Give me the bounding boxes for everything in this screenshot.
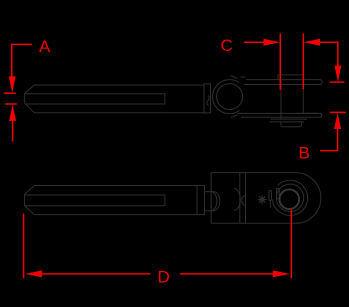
- top view jaw bottom plate: [237, 113, 322, 117]
- dim B upper tick: [330, 81, 345, 83]
- dim A lower arrowhead: [9, 104, 16, 121]
- top view washer under jaw: [270, 119, 307, 122]
- bottom view socket arc: [242, 195, 245, 205]
- dim D left extension line: [23, 214, 25, 279]
- svg-text:D: D: [158, 268, 170, 287]
- top view ball inner circle: [217, 84, 243, 110]
- dim C right line with elbow to B arrow: [320, 42, 338, 66]
- dim D line right segment: [180, 273, 274, 275]
- bottom view jaw slot lines: [240, 173, 246, 224]
- top view pin head top rectangle: [278, 75, 303, 80]
- dim A upper arrowhead: [9, 76, 16, 93]
- top view collar: [204, 84, 211, 113]
- bottom view tongue inner arc: [213, 192, 217, 210]
- dim B upper arrowhead: [334, 66, 341, 82]
- dim B lower arrowhead: [334, 113, 341, 129]
- bottom view tongue: [205, 192, 220, 211]
- dim D right extension line: [290, 209, 292, 278]
- dim B lower tick: [330, 111, 346, 113]
- dim B lower arrow shaft and elbow: [320, 128, 338, 151]
- dim D right arrowhead: [273, 270, 290, 277]
- dim A upper extension tick: [4, 92, 16, 94]
- bottom view rod body: [25, 186, 205, 215]
- top view pin head bottom: [281, 122, 302, 127]
- top view jaw body chamfer bottom: [231, 115, 238, 118]
- top view ball outer arc: [213, 80, 240, 114]
- top view jaw top plate: [244, 80, 322, 85]
- dim C right arrowhead: [304, 39, 320, 46]
- dim D line left segment: [41, 273, 150, 275]
- bottom view eye middle circle: [276, 184, 303, 211]
- bottom view rod inner bore rectangle: [25, 195, 165, 206]
- bottom view rod end weld line: [196, 186, 198, 215]
- bottom view ball in slot: [234, 189, 240, 211]
- bottom view cotter detail verticals: [269, 190, 272, 200]
- top view rod inner bore rectangle: [25, 94, 165, 104]
- top view rod body: [25, 85, 204, 113]
- top view pin shaft edges: [281, 80, 303, 120]
- top view collar swage squiggle: [207, 96, 209, 106]
- bottom view spotface C arc: [273, 180, 308, 215]
- svg-text:C: C: [221, 36, 233, 55]
- dim C left extension line: [279, 33, 281, 89]
- bottom view cotter pin star: [258, 195, 267, 203]
- bottom view jaw body: [211, 173, 321, 224]
- svg-text:A: A: [39, 37, 51, 56]
- dim A lower extension tick: [5, 103, 17, 105]
- dim C left line: [244, 41, 265, 43]
- svg-text:B: B: [299, 144, 310, 163]
- dim A leader elbow: [12, 44, 32, 82]
- dim C left arrowhead: [264, 39, 280, 46]
- top view jaw bottom plate cap line: [296, 112, 318, 114]
- dim A lower arrow shaft: [12, 120, 14, 142]
- top view jaw body chamfer top: [231, 76, 246, 79]
- bottom view tab rectangle: [277, 188, 280, 198]
- dim D left arrowhead: [25, 270, 42, 277]
- dim C right extension line: [302, 33, 304, 89]
- bottom view eye hole circle: [280, 189, 300, 209]
